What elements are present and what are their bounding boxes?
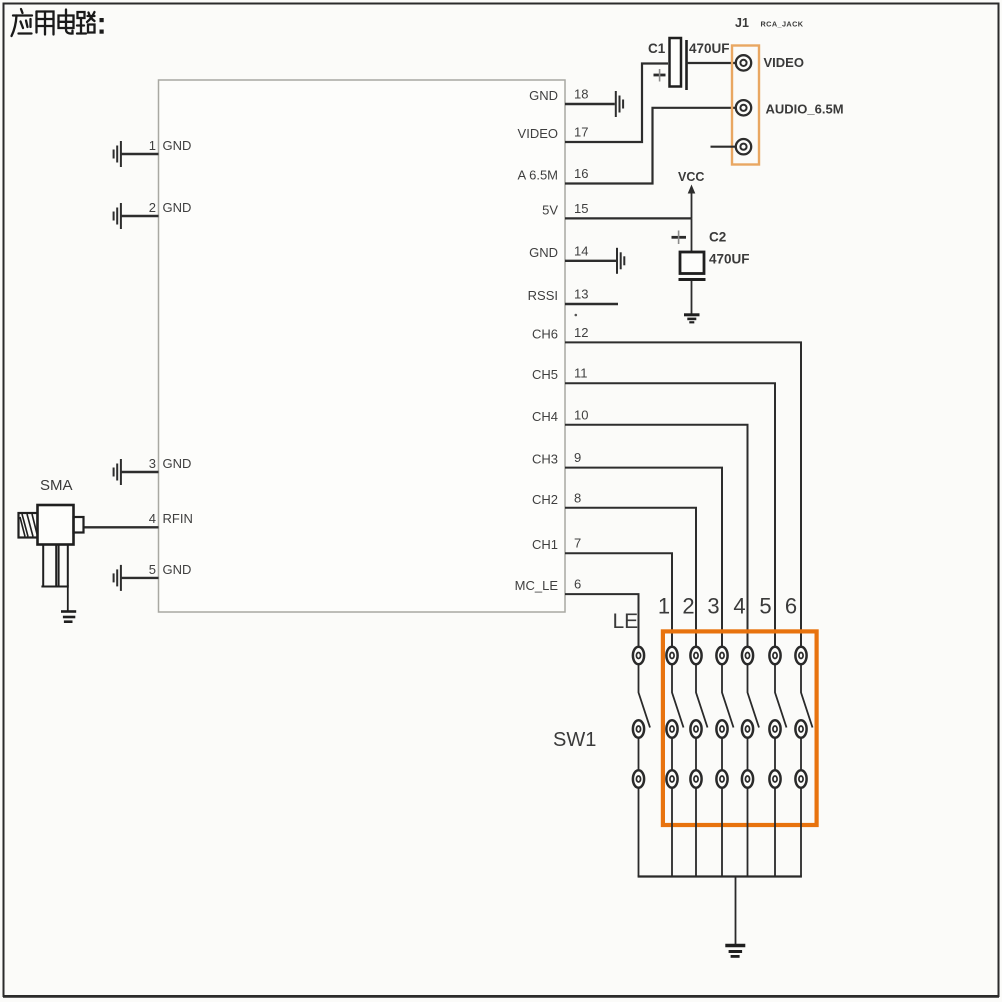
- RCA jack VIDEO pin: [736, 55, 751, 70]
- svg-text:11: 11: [574, 366, 588, 381]
- svg-text:5: 5: [759, 594, 771, 619]
- pin 14 wire: [565, 260, 616, 262]
- pin 5 wire: [122, 577, 159, 579]
- RCA jack ground pin: [736, 139, 751, 154]
- svg-text:8: 8: [574, 490, 581, 505]
- svg-text:5: 5: [149, 562, 156, 577]
- pin 13 wire: [565, 303, 618, 305]
- svg-text:4: 4: [733, 594, 745, 619]
- SMA center pin tab: [74, 517, 84, 533]
- SMA connector J? threaded part: [19, 513, 38, 538]
- svg-text:GND: GND: [163, 562, 192, 577]
- svg-text:AUDIO_6.5M: AUDIO_6.5M: [766, 102, 844, 117]
- pin 17 wire to C1: [565, 64, 668, 143]
- SW1 ground: [725, 946, 745, 957]
- svg-text:1: 1: [658, 594, 670, 619]
- svg-text:9: 9: [574, 450, 581, 465]
- pin 4 RFIN wire: [84, 526, 159, 528]
- svg-text:18: 18: [574, 87, 588, 102]
- svg-text:15: 15: [574, 201, 588, 216]
- capacitor C2 body: [680, 252, 704, 274]
- pin 3 wire: [122, 471, 159, 473]
- wire stub to ground pin: [711, 146, 737, 148]
- svg-text:MC_LE: MC_LE: [515, 578, 559, 593]
- svg-text:CH4: CH4: [532, 409, 558, 424]
- switch column 4: [742, 647, 759, 877]
- svg-text:7: 7: [574, 536, 581, 551]
- svg-text:10: 10: [574, 407, 588, 422]
- VCC symbol: [688, 185, 696, 219]
- svg-text:6: 6: [785, 594, 797, 619]
- capacitor C1 right plate: [685, 40, 688, 90]
- svg-text:2: 2: [149, 200, 156, 215]
- wire C1 to VIDEO jack: [687, 62, 737, 64]
- capacitor C1 body: [670, 38, 682, 87]
- svg-text:LE: LE: [613, 610, 639, 633]
- switch column 5: [769, 647, 786, 877]
- switch column 6: [795, 647, 812, 877]
- svg-text:6: 6: [574, 577, 581, 592]
- svg-text:3: 3: [707, 594, 719, 619]
- svg-text:C1: C1: [648, 41, 666, 56]
- svg-text:CH5: CH5: [532, 367, 558, 382]
- ground pin2: [114, 203, 121, 229]
- stray dot: [575, 314, 578, 317]
- svg-text:17: 17: [574, 125, 588, 140]
- svg-text:RFIN: RFIN: [163, 511, 193, 526]
- capacitor C2 bottom plate: [679, 278, 706, 281]
- svg-text:SW1: SW1: [553, 729, 596, 751]
- ground pin1: [114, 141, 121, 167]
- svg-text:GND: GND: [163, 456, 192, 471]
- ground bus wire: [638, 875, 802, 877]
- C2 ground: [684, 315, 700, 323]
- switch column 2: [690, 647, 707, 877]
- svg-text:13: 13: [574, 287, 588, 302]
- SMA legs: [41, 545, 68, 587]
- capacitor C2 lead from 5V: [691, 218, 693, 252]
- IC module U1: [159, 80, 566, 612]
- pin 10 wire CH4: [565, 425, 748, 647]
- pin 8 wire CH2: [565, 508, 696, 647]
- svg-text:2: 2: [682, 594, 694, 619]
- capacitor C2 plus sign: [672, 231, 687, 245]
- svg-text:14: 14: [574, 243, 588, 258]
- svg-text:RSSI: RSSI: [528, 288, 558, 303]
- pin 6 wire MC_LE: [565, 594, 639, 647]
- svg-text:CH1: CH1: [532, 537, 558, 552]
- SMA ground: [61, 612, 76, 622]
- pin 16 wire to AUDIO jack: [565, 108, 736, 184]
- switch SW1 box: [663, 631, 817, 825]
- pin 12 wire CH6: [565, 342, 801, 647]
- svg-text:GND: GND: [163, 138, 192, 153]
- svg-text:CH3: CH3: [532, 452, 558, 467]
- svg-text:470UF: 470UF: [709, 252, 750, 267]
- svg-text:A 6.5M: A 6.5M: [518, 168, 558, 183]
- RCA jack AUDIO pin: [736, 100, 751, 115]
- svg-text:470UF: 470UF: [689, 41, 730, 56]
- ground pin14: [617, 248, 624, 274]
- ground pin18: [616, 91, 623, 117]
- svg-text:VCC: VCC: [678, 170, 704, 184]
- svg-text:12: 12: [574, 325, 588, 340]
- ground pin3: [114, 459, 121, 485]
- svg-text:J1: J1: [735, 16, 749, 30]
- svg-text:GND: GND: [529, 245, 558, 260]
- pin 2 wire: [122, 215, 159, 217]
- svg-text:4: 4: [149, 511, 156, 526]
- pin 18 wire: [565, 103, 615, 105]
- svg-text:C2: C2: [709, 230, 726, 245]
- SMA body: [38, 505, 74, 545]
- svg-text:VIDEO: VIDEO: [764, 55, 804, 70]
- ground pin5: [114, 565, 121, 591]
- svg-text:16: 16: [574, 166, 588, 181]
- pin 1 wire: [122, 153, 159, 155]
- switch column 3: [716, 647, 733, 877]
- switch LE column: [633, 647, 650, 877]
- ground bus drop wire: [735, 877, 737, 945]
- pin 7 wire CH1: [565, 553, 672, 647]
- svg-text:5V: 5V: [542, 203, 558, 218]
- svg-text:3: 3: [149, 456, 156, 471]
- svg-text:VIDEO: VIDEO: [518, 126, 558, 141]
- svg-text:CH6: CH6: [532, 327, 558, 342]
- svg-text:1: 1: [149, 138, 156, 153]
- svg-text:RCA_JACK: RCA_JACK: [761, 20, 804, 29]
- svg-text:GND: GND: [529, 88, 558, 103]
- svg-text:GND: GND: [163, 200, 192, 215]
- capacitor C1 plus sign: [654, 69, 666, 82]
- title 应用电路：: [12, 9, 95, 36]
- pin 15 wire: [565, 217, 692, 219]
- SMA ground wire: [67, 587, 69, 612]
- switch column 1: [666, 647, 683, 877]
- title colon: [100, 18, 104, 34]
- C2 ground wire: [691, 281, 693, 314]
- pin 9 wire CH3: [565, 468, 722, 647]
- connector J1 box: [732, 46, 759, 165]
- svg-text:CH2: CH2: [532, 492, 558, 507]
- pin 11 wire CH5: [565, 383, 775, 647]
- svg-text:SMA: SMA: [40, 477, 73, 494]
